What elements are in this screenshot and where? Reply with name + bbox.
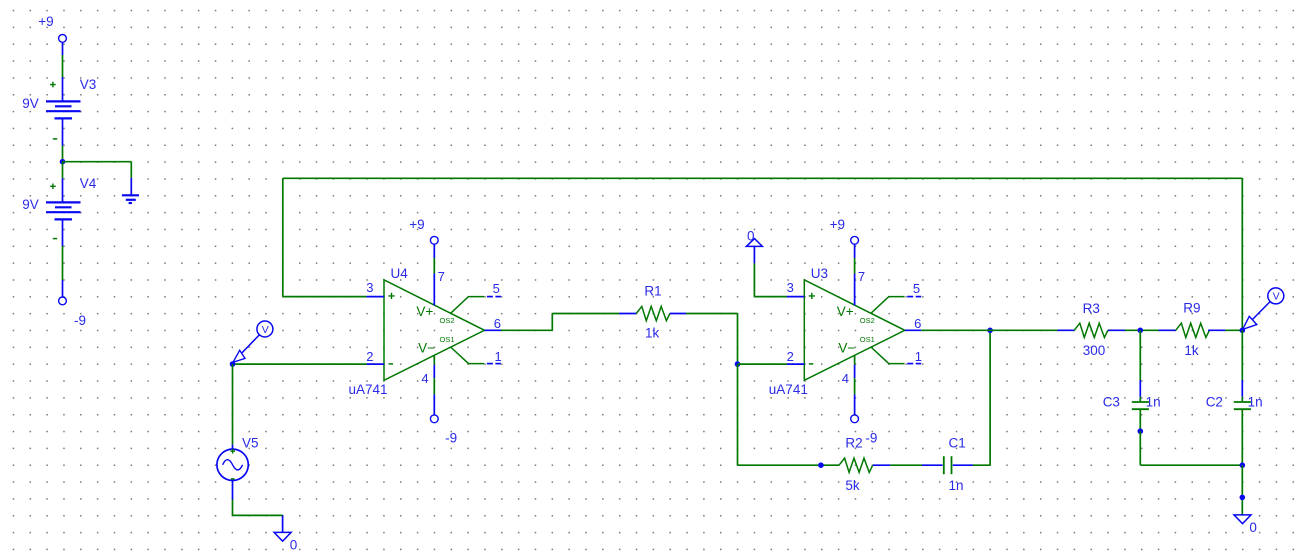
svg-text:1k: 1k	[1184, 343, 1199, 358]
pin stem of earth ground	[130, 178, 132, 195]
svg-text:6: 6	[914, 316, 921, 331]
U4 pin 4 stem	[433, 355, 435, 364]
battery V3 plates	[46, 100, 81, 102]
battery V4 plates	[46, 201, 81, 203]
svg-text:4: 4	[842, 371, 849, 386]
svg-text:0: 0	[290, 537, 298, 552]
op-amp U4 + input mark	[388, 293, 394, 299]
wire +9 to V3	[62, 55, 64, 77]
svg-text:5: 5	[913, 281, 920, 296]
feedback wire right vertical	[1241, 178, 1243, 330]
capacitor C2 branch wire	[1241, 330, 1243, 380]
svg-text:7: 7	[858, 269, 865, 284]
svg-text:OS1: OS1	[860, 335, 875, 344]
wire below C3	[1139, 409, 1141, 431]
op-amp U3 triangle	[804, 280, 905, 381]
svg-text:0: 0	[1249, 520, 1257, 535]
wire V5 node down to V5	[232, 364, 234, 445]
capacitor C1	[922, 464, 943, 466]
svg-text:uA741: uA741	[349, 382, 388, 397]
resistor R3	[1057, 329, 1074, 331]
battery V4 + mark	[50, 184, 56, 190]
earth ground symbol	[122, 194, 139, 196]
ground 0 symbol above U3 pin3 (up triangle)	[746, 239, 762, 247]
svg-text:9V: 9V	[22, 197, 39, 212]
svg-text:-9: -9	[445, 431, 457, 446]
svg-text:7: 7	[438, 269, 445, 284]
wire U4 pin6 to R1 (with jog)	[501, 329, 552, 331]
wire R2 to C1	[890, 464, 922, 466]
svg-text:OS2: OS2	[440, 316, 455, 325]
svg-text:uA741: uA741	[769, 382, 808, 397]
ground 0 symbol (V5)	[274, 532, 291, 541]
svg-text:1: 1	[495, 349, 502, 364]
op-amp U4 triangle	[384, 280, 485, 381]
junction at output node	[1240, 328, 1246, 334]
U3 pin 7 stem	[854, 244, 856, 258]
pin stem from +9 bubble	[62, 42, 64, 55]
svg-text:0: 0	[747, 228, 755, 243]
wire junction to earth ground	[63, 161, 132, 163]
ground 0 symbol (output)	[1234, 515, 1251, 524]
svg-text:V+: V+	[416, 304, 433, 319]
svg-text:V: V	[262, 324, 269, 336]
wire V5 node to U4 pin 2	[233, 363, 367, 365]
battery V3 + mark	[50, 82, 56, 88]
junction on feedback row	[818, 462, 824, 468]
bottom wire C3 to C2	[1140, 464, 1242, 466]
feedback wire (output to U4 pin3) top run	[283, 177, 1243, 179]
svg-text:V3: V3	[80, 77, 97, 92]
wire U3 pin6 to junction	[921, 329, 990, 331]
svg-text:9V: 9V	[22, 96, 39, 111]
junction on ground stem	[1240, 495, 1246, 501]
power node -9 below U4	[430, 415, 438, 423]
sine source V5	[217, 449, 248, 480]
U4 pin 6 (output)	[485, 329, 502, 331]
svg-text:C2: C2	[1206, 395, 1223, 410]
pin stem out of V4	[62, 219, 64, 246]
battery V4 - mark	[53, 238, 57, 240]
op-amp U3 + input mark	[809, 293, 815, 299]
svg-text:OS2: OS2	[860, 316, 875, 325]
voltage probe at U4 input	[257, 321, 273, 337]
junction at R3/R9/C3 node	[1138, 328, 1144, 334]
pin stem of ground 0 (U3 pin3)	[753, 246, 755, 263]
capacitor C3	[1132, 401, 1149, 403]
resistor R1	[619, 313, 636, 315]
svg-text:1: 1	[915, 349, 922, 364]
svg-text:V−: V−	[418, 341, 435, 356]
svg-text:1k: 1k	[645, 326, 660, 341]
svg-text:OS1: OS1	[440, 335, 455, 344]
wire C1 to output node of U3	[973, 464, 990, 466]
U3 pin 6 (output)	[905, 329, 922, 331]
svg-text:-9: -9	[865, 431, 877, 446]
resistor R9	[1159, 329, 1176, 331]
capacitor C2	[1234, 401, 1251, 403]
svg-text:R3: R3	[1083, 301, 1100, 316]
U3 pin 1 (OS1) lead	[871, 347, 905, 364]
wire below C2	[1241, 409, 1243, 465]
pin stem out of V5	[232, 481, 234, 500]
wire R3 to mid node	[1125, 329, 1159, 331]
svg-text:V−: V−	[838, 341, 855, 356]
op-amp U3 pin 2	[787, 363, 804, 365]
junction below C3	[1138, 428, 1144, 434]
op-amp U4 pin 2	[367, 363, 384, 365]
svg-text:1n: 1n	[1146, 395, 1161, 410]
wire R1 to U3 input junction	[686, 313, 737, 315]
wire junction to U3 pin 2	[738, 363, 788, 365]
op-amp U3 pin 3	[787, 296, 804, 298]
svg-text:2: 2	[366, 349, 373, 364]
U4 pin 1 (OS1) lead	[451, 347, 485, 364]
svg-text:R1: R1	[644, 283, 661, 298]
svg-text:3: 3	[366, 280, 373, 295]
svg-text:5k: 5k	[845, 478, 860, 493]
wire V5 to ground	[232, 500, 234, 516]
svg-text:3: 3	[787, 280, 794, 295]
svg-text:C1: C1	[949, 436, 966, 451]
op-amp U3 - input mark	[809, 363, 813, 365]
svg-text:+9: +9	[409, 217, 424, 232]
svg-text:V4: V4	[80, 176, 97, 191]
U3 pin 4 stem	[854, 355, 856, 364]
svg-text:2: 2	[787, 349, 794, 364]
svg-text:300: 300	[1083, 343, 1106, 358]
junction at U3 pin2 node	[735, 361, 741, 367]
power node -9 below U3	[851, 415, 859, 423]
pin stem into V5	[232, 445, 234, 450]
svg-text:C3: C3	[1103, 395, 1120, 410]
U4 pin 7 stem	[433, 244, 435, 258]
capacitor C3 branch wire	[1139, 330, 1141, 380]
junction at V5 node	[230, 361, 236, 367]
wire to output ground	[1241, 465, 1243, 515]
pin stem out of V3	[62, 118, 64, 145]
svg-text:1n: 1n	[949, 478, 964, 493]
svg-text:V+: V+	[837, 304, 854, 319]
pin stem to -9 bubble	[62, 280, 64, 297]
svg-text:V: V	[1273, 291, 1280, 303]
pin stem into V4	[62, 178, 64, 202]
junction at bottom rail	[1240, 462, 1246, 468]
wire V3 to junction	[62, 146, 64, 162]
svg-text:U4: U4	[391, 266, 409, 281]
junction of V3/V4/ground	[60, 159, 66, 165]
op-amp U4 - input mark	[389, 363, 393, 365]
wire V4 to -9	[62, 246, 64, 280]
svg-text:+9: +9	[38, 14, 53, 29]
svg-text:V5: V5	[242, 436, 259, 451]
pin stem into V3	[62, 77, 64, 101]
wire U3 output to R3	[990, 329, 1057, 331]
wire junction to V4	[62, 162, 64, 179]
svg-text:U3: U3	[811, 266, 828, 281]
svg-text:4: 4	[421, 371, 428, 386]
U3 pin 5 (OS2) lead	[871, 297, 905, 314]
feedback wire left vertical	[282, 178, 284, 296]
op-amp U4 pin 3	[367, 296, 384, 298]
svg-text:R9: R9	[1183, 300, 1200, 315]
svg-text:R2: R2	[845, 436, 862, 451]
wire junction down to feedback row	[737, 364, 739, 465]
pin stem of ground 0 (V5)	[282, 515, 284, 532]
battery V3 - mark	[53, 138, 57, 140]
svg-text:-9: -9	[74, 313, 86, 328]
svg-text:5: 5	[493, 281, 500, 296]
U4 pin 5 (OS2) lead	[451, 297, 485, 314]
voltage probe at output	[1268, 288, 1284, 304]
wire into U4 pin 3	[283, 296, 367, 298]
svg-text:1n: 1n	[1248, 395, 1263, 410]
power node -9 (bottom)	[59, 297, 67, 305]
resistor R2	[839, 458, 873, 472]
svg-text:6: 6	[494, 316, 501, 331]
svg-text:+9: +9	[830, 217, 845, 232]
wire ground to U3 pin 3	[753, 263, 755, 296]
junction at U3 pin6 node	[987, 328, 993, 334]
wire R9 to output node	[1225, 329, 1242, 331]
